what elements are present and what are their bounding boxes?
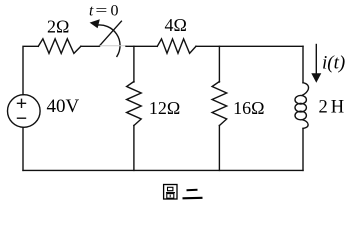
svg-text:t: t — [89, 2, 94, 19]
svg-text:i(t): i(t) — [322, 53, 345, 74]
svg-text:40V: 40V — [47, 96, 80, 117]
caption CJK figure-two glyph 圖 — [164, 185, 177, 200]
svg-text:2Ω: 2Ω — [47, 17, 69, 37]
svg-text:=: = — [95, 2, 107, 19]
wire branch1 lower — [133, 126, 135, 171]
wire branch1 upper — [133, 46, 135, 82]
resistor R 12ohm — [127, 82, 142, 126]
inductor L 2H — [302, 83, 308, 96]
svg-text:16Ω: 16Ω — [233, 98, 264, 118]
resistor R 2ohm — [38, 39, 81, 54]
caption CJK figure-two glyph 二 — [183, 190, 203, 199]
plus sign — [18, 99, 26, 107]
wire switch to node A — [126, 45, 157, 47]
wire to switch pivot — [81, 45, 100, 47]
svg-text:0: 0 — [111, 2, 119, 19]
wire right side upper — [302, 46, 304, 82]
voltage source VS 40V circle — [8, 95, 41, 128]
svg-text:4Ω: 4Ω — [165, 15, 187, 35]
wire branch2 lower — [218, 126, 220, 171]
resistor R 16ohm — [212, 82, 227, 126]
minus sign — [18, 117, 26, 119]
current arrow i(t) — [315, 45, 317, 75]
faint open-gap line — [100, 45, 126, 47]
wire branch2 upper — [218, 46, 220, 82]
resistor R 4ohm — [157, 39, 196, 53]
switch blade t=0 — [100, 21, 122, 46]
wire node A to top-right corner — [196, 45, 303, 47]
switch arrowhead — [90, 19, 100, 28]
svg-text:2H: 2H — [319, 97, 348, 117]
wire top-left stub — [23, 46, 38, 95]
wire bottom — [23, 169, 303, 171]
wire right side lower — [302, 128, 304, 170]
wire left lower — [22, 127, 24, 170]
svg-text:12Ω: 12Ω — [149, 98, 180, 118]
switch arc — [96, 25, 120, 56]
